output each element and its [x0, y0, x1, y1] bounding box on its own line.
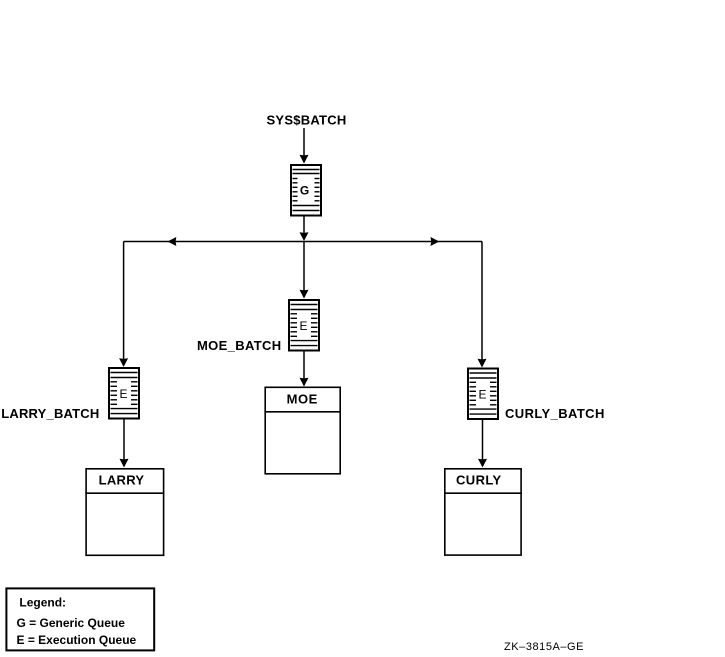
svg-text:SYS$BATCH: SYS$BATCH	[266, 113, 346, 128]
svg-text:Legend:: Legend:	[19, 596, 66, 610]
wire: horizontal branch line	[124, 241, 482, 243]
wire: junction down-left branch to LARRY_BATCH queue	[119, 242, 128, 368]
label SYS$BATCH	[266, 113, 346, 128]
svg-text:MOE: MOE	[287, 391, 318, 406]
label CURLY_BATCH	[505, 406, 605, 421]
svg-text:E: E	[478, 388, 486, 402]
legend box	[6, 588, 154, 650]
wire: LARRY_BATCH queue down to LARRY box	[120, 419, 129, 468]
legend entry E = Execution Queue	[17, 633, 137, 647]
svg-text:MOE_BATCH: MOE_BATCH	[197, 338, 282, 353]
queue icon U-G: generic queue G	[291, 165, 321, 216]
svg-text:E: E	[119, 387, 127, 401]
svg-text:LARRY: LARRY	[99, 472, 145, 487]
svg-text:E = Execution Queue: E = Execution Queue	[17, 633, 137, 647]
arrowhead pointing left on branch line	[168, 237, 177, 246]
svg-text:G: G	[300, 184, 309, 198]
svg-text:G = Generic Queue: G = Generic Queue	[17, 616, 126, 630]
legend entry G = Generic Queue	[17, 616, 126, 630]
svg-text:CURLY_BATCH: CURLY_BATCH	[505, 406, 605, 421]
wire: junction down-right branch to CURLY_BATCH queue	[478, 242, 487, 368]
box LARRY with title band	[85, 469, 164, 556]
queue icon U-E1: execution queue E (LARRY_BATCH)	[109, 368, 139, 419]
wire: SYS$BATCH down to generic queue icon	[300, 128, 309, 164]
figure number ZK-3815A-GE	[504, 641, 584, 653]
label LARRY_BATCH	[1, 406, 99, 421]
wire: CURLY_BATCH queue down to CURLY box	[478, 419, 487, 468]
svg-text:CURLY: CURLY	[456, 472, 502, 487]
legend title text	[19, 596, 66, 610]
svg-text:E: E	[299, 319, 307, 333]
queue icon U-E3: execution queue E (CURLY_BATCH)	[468, 369, 498, 420]
wire: MOE_BATCH queue down to MOE box	[300, 351, 309, 387]
box MOE with title band	[264, 387, 340, 474]
wire: junction down to execution queue MOE_BATCH	[300, 242, 309, 299]
arrowhead pointing right on branch line	[431, 237, 440, 246]
svg-text:ZK–3815A–GE: ZK–3815A–GE	[504, 641, 584, 653]
box CURLY with title band	[444, 469, 522, 555]
wire: generic queue down to branch junction	[300, 216, 309, 241]
label MOE_BATCH	[197, 338, 282, 353]
queue icon U-E2: execution queue E (MOE_BATCH)	[289, 300, 319, 351]
svg-text:LARRY_BATCH: LARRY_BATCH	[1, 406, 99, 421]
